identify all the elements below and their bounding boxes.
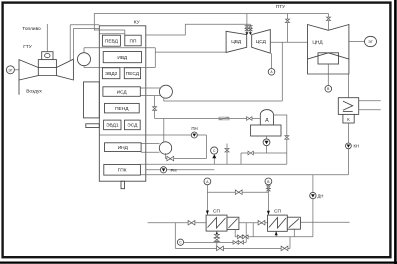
svg-text:ЦСД: ЦСД [256, 39, 267, 45]
svg-text:ИСД: ИСД [117, 89, 128, 95]
svg-text:СП: СП [213, 209, 220, 215]
svg-text:ГПК: ГПК [118, 168, 127, 174]
svg-text:Воздух: Воздух [26, 89, 42, 95]
svg-text:ПП: ПП [130, 38, 137, 44]
svg-text:ЦВД: ЦВД [231, 39, 242, 45]
svg-text:ДН: ДН [318, 193, 324, 198]
svg-text:ЭСД: ЭСД [127, 123, 138, 129]
svg-text:ЭВД1: ЭВД1 [106, 123, 119, 129]
svg-text:ПЕНД: ПЕНД [115, 106, 129, 112]
svg-text:ПТУ: ПТУ [276, 4, 286, 10]
svg-text:ЭГ: ЭГ [368, 40, 373, 44]
svg-text:ПЕВД: ПЕВД [105, 39, 119, 45]
svg-text:ЭВД2: ЭВД2 [105, 71, 118, 77]
svg-text:Топливо: Топливо [22, 26, 41, 32]
svg-text:ИНД: ИНД [118, 145, 129, 151]
svg-text:ПН: ПН [191, 126, 197, 131]
svg-text:ЦНД: ЦНД [312, 40, 323, 46]
svg-text:ГТУ: ГТУ [23, 44, 33, 50]
svg-text:ИВД: ИВД [117, 55, 128, 61]
svg-text:КУ: КУ [134, 20, 141, 26]
svg-text:РН: РН [171, 168, 177, 173]
svg-text:ЭГ: ЭГ [8, 68, 12, 72]
svg-text:СП: СП [274, 209, 281, 215]
svg-text:ПЕСД: ПЕСД [126, 71, 140, 77]
svg-text:КН: КН [354, 144, 359, 149]
